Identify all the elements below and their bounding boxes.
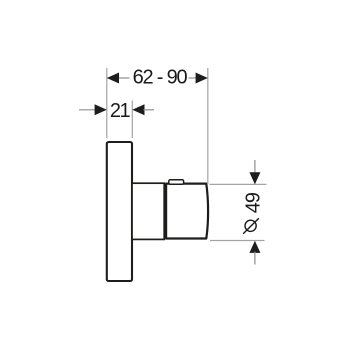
dimension 62-90: right tail	[189, 77, 198, 79]
handle (side view)	[166, 184, 208, 239]
extension line handle bottom (y=240.5)	[210, 240, 265, 242]
extension line left (wall face, x=106.8)	[106, 68, 108, 138]
dimension 62-90: left tail	[118, 77, 130, 79]
dimension o49: bottom tail	[254, 252, 256, 265]
dimension 62-90: right arrow	[196, 73, 208, 84]
dimension 21: right tail	[144, 109, 155, 111]
dimension 21: left arrow (pointing right)	[95, 104, 107, 115]
dimension o49: top arrow (pointing down)	[249, 172, 260, 184]
svg-text:49: 49	[242, 192, 264, 213]
svg-text:21: 21	[110, 100, 131, 122]
wall plate (escutcheon, side view)	[107, 142, 132, 281]
dimension 21: left tail	[79, 109, 96, 111]
diameter symbol slash	[243, 218, 259, 234]
dimension o49: top tail	[254, 160, 256, 176]
sleeve (body between plate and handle)	[132, 183, 164, 239]
diameter symbol circle	[245, 220, 256, 231]
svg-text:62 - 90: 62 - 90	[133, 66, 188, 88]
dimension o49: bottom arrow (pointing up)	[249, 241, 260, 253]
extension line plate front (x=132.3)	[131, 101, 133, 139]
extension line handle top (y=184.4)	[210, 183, 267, 185]
extension line right (handle front, x=207.8)	[207, 68, 209, 184]
dimension 62-90: left arrow	[107, 73, 119, 84]
dimension 21: right arrow (pointing left)	[132, 104, 144, 115]
grip tab on top of handle	[169, 180, 184, 185]
